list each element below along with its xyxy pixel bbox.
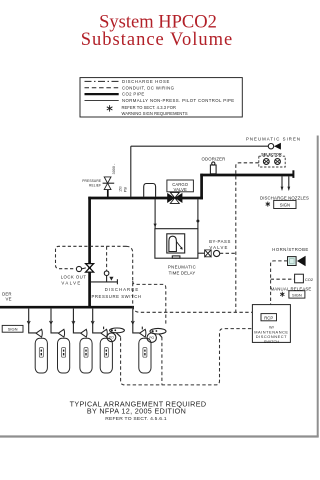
dashed conduit pressure switch tap	[106, 246, 108, 270]
svg-text:BY-PASS: BY-PASS	[209, 239, 231, 244]
wire time delay feed left	[154, 199, 156, 228]
pipe crossover hump	[144, 184, 156, 197]
pressure switch stem	[106, 275, 108, 282]
nozzles sign box	[274, 200, 296, 208]
svg-text:150: 150	[119, 186, 123, 192]
nozzle arrowhead left	[281, 187, 284, 191]
rcp inner box	[261, 314, 277, 321]
svg-text:PO: PO	[109, 336, 114, 340]
nozzle arrowhead right	[287, 187, 290, 191]
wire co2 pipe manifold	[0, 306, 134, 309]
svg-text:PO: PO	[149, 336, 154, 340]
svg-text:REFER TO SECT. 4.5.6.1: REFER TO SECT. 4.5.6.1	[105, 416, 167, 422]
page right border	[317, 136, 319, 437]
wire co2 pipe upper horizontal run	[200, 174, 293, 177]
svg-text:SIGN: SIGN	[280, 203, 290, 208]
co2 cylinder 1	[35, 338, 47, 373]
svg-text:PNEUMATIC SIREN: PNEUMATIC SIREN	[246, 137, 301, 142]
wire siren pilot line vertical tap	[130, 146, 132, 197]
odorizer symbol	[210, 162, 216, 174]
selector valve 1	[263, 159, 269, 165]
svg-text:CONDUIT, DC WIRING: CONDUIT, DC WIRING	[122, 85, 175, 90]
wire co2 pipe vertical riser	[88, 197, 91, 308]
cargo valve label box	[167, 180, 194, 192]
discharge hose drop cylinder 1	[29, 309, 36, 333]
lockout valve symbol	[76, 264, 93, 273]
legend pilot pipe sample	[85, 99, 119, 101]
wire pressure relief stub	[107, 190, 109, 197]
co2 cylinder 3	[80, 338, 92, 373]
legend co2 pipe sample	[85, 93, 119, 95]
svg-text:BY NFPA 12, 2005 EDITION: BY NFPA 12, 2005 EDITION	[87, 407, 186, 416]
wire discharge pressure switch bar	[91, 281, 118, 283]
svg-text:CO2: CO2	[305, 277, 314, 282]
legend conduit sample	[85, 87, 119, 89]
legend discharge hose sample	[85, 80, 119, 82]
wire time delay feed right	[197, 199, 199, 228]
svg-text:TIME DELAY: TIME DELAY	[169, 270, 196, 275]
dashed pilot cylinder4 loop	[121, 329, 253, 385]
pilot actuator cylinder 5	[142, 327, 166, 343]
dashed pilot cylinder5 drop	[161, 337, 163, 385]
time delay box bottom tab	[172, 256, 180, 258]
dashed conduit branch to cylinder 5 pilot	[133, 281, 166, 326]
page bottom border	[0, 435, 319, 437]
discharge hose drop cylinder 3	[73, 309, 80, 333]
dashed conduit bypass link	[220, 252, 236, 254]
manual release sign box	[289, 291, 305, 298]
svg-text:PRESSURE: PRESSURE	[82, 179, 102, 183]
legend star symbol	[107, 105, 113, 111]
wire siren pilot line horizontal	[131, 145, 268, 147]
svg-text:VALVE: VALVE	[174, 187, 187, 192]
discharge pressure switch symbol	[104, 271, 113, 281]
pilot actuator cylinder 4	[104, 327, 125, 342]
cylinder valve 1	[36, 329, 42, 337]
svg-text:ODORIZER: ODORIZER	[202, 156, 226, 161]
co2 cylinder 5	[139, 338, 151, 373]
discharge hose drop cylinder 2	[51, 309, 58, 333]
selector dashed enclosure	[259, 156, 285, 167]
rcp enclosure box	[252, 305, 290, 343]
pipe end cap flange	[292, 170, 294, 178]
svg-text:CO2 PIPE: CO2 PIPE	[122, 92, 145, 97]
svg-text:PNEUMATIC: PNEUMATIC	[168, 265, 196, 270]
bypass valve symbol	[205, 250, 220, 257]
svg-text:HORN/STROBE: HORN/STROBE	[272, 247, 308, 252]
cylinder valve 3	[81, 329, 87, 337]
flow arrow on time delay feed	[154, 224, 157, 228]
dashed conduit horn strobe riser	[271, 261, 288, 305]
svg-text:RCP: RCP	[264, 315, 273, 320]
horn strobe symbol	[288, 256, 306, 266]
junction dot on right feed	[196, 220, 199, 223]
co2 cylinder 2	[58, 338, 70, 373]
svg-text:SIGN: SIGN	[8, 327, 18, 332]
svg-text:RELIEF: RELIEF	[89, 183, 101, 187]
svg-text:VALVE: VALVE	[209, 245, 228, 250]
dashed conduit selector to bypass vertical	[236, 163, 259, 312]
legend box	[80, 78, 242, 117]
time delay arrow	[177, 242, 183, 250]
svg-text:SELECTOR: SELECTOR	[261, 152, 282, 156]
pressure relief valve	[103, 177, 115, 190]
svg-text:LOCK OUT: LOCK OUT	[61, 275, 87, 280]
svg-text:SIGN: SIGN	[292, 293, 302, 298]
dashed conduit manual release branch	[271, 278, 295, 280]
selector valve 2	[275, 159, 281, 165]
cylinder valve 4	[101, 329, 107, 337]
svg-text:REFER TO SECT. 4.3.3 FOR: REFER TO SECT. 4.3.3 FOR	[122, 105, 177, 110]
cylinder valve 2	[58, 329, 64, 337]
manifold sign box	[2, 325, 23, 332]
cargo valve symbol	[167, 192, 182, 203]
svg-text:NORMALLY NON-PRESS. PILOT CONT: NORMALLY NON-PRESS. PILOT CONTROL PIPE	[122, 98, 235, 103]
pneumatic siren symbol	[268, 143, 281, 150]
svg-text:3000 -: 3000 -	[112, 163, 116, 174]
wire discharge nozzle drop right	[288, 176, 290, 187]
svg-text:VALVE: VALVE	[61, 281, 81, 286]
svg-text:PRESSURE SWITCH: PRESSURE SWITCH	[91, 294, 141, 299]
dashed conduit lockout to junction	[126, 246, 252, 312]
svg-text:DISCHARGE: DISCHARGE	[105, 287, 140, 292]
svg-text:PSI: PSI	[124, 187, 128, 193]
svg-text:WARNING SIGN REQUIREMENTS: WARNING SIGN REQUIREMENTS	[122, 111, 188, 116]
wire bypass valve link	[198, 252, 205, 254]
wire co2 pipe up bend	[200, 174, 203, 200]
pneumatic time delay inner box	[167, 234, 185, 253]
wire co2 pipe lower horizontal run	[88, 197, 203, 200]
time delay bell	[169, 236, 177, 251]
nozzles sign star	[266, 202, 270, 207]
discharge hose drop cylinder 4	[93, 309, 101, 333]
svg-text:Substance Volume: Substance Volume	[81, 30, 234, 50]
pressure switch bar end tick	[116, 279, 118, 284]
co2 cylinder 4	[100, 338, 112, 373]
cylinder valve 5	[140, 329, 146, 337]
time delay outer box	[155, 229, 198, 259]
wire discharge nozzle drop left	[281, 176, 283, 187]
discharge hose drop cylinder 5	[133, 309, 140, 333]
svg-text:SWITCH: SWITCH	[264, 339, 280, 344]
svg-text:DISCHARGE NOZZLES: DISCHARGE NOZZLES	[260, 195, 309, 200]
lockout actuator dashed enclosure	[56, 246, 127, 268]
manual release sign star	[280, 292, 284, 297]
svg-text:VE: VE	[6, 296, 12, 301]
manual release pull box	[295, 274, 304, 283]
svg-text:DISCHARGE HOSE: DISCHARGE HOSE	[122, 79, 170, 84]
